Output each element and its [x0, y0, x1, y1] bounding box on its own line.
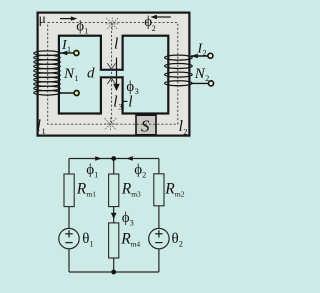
svg-text:m2: m2: [175, 189, 185, 198]
d dimension arrow upper (points down to gap): [107, 63, 115, 69]
wire bottom: [69, 271, 159, 273]
resistor Rm2: [154, 174, 164, 206]
d dimension arrow lower (points up to gap): [107, 78, 115, 84]
svg-text:R: R: [120, 231, 131, 248]
wire left branch upper: [68, 159, 70, 175]
svg-text:3: 3: [130, 218, 134, 227]
window 2 (right): [123, 36, 169, 114]
flux phi2 arrow: [150, 15, 170, 19]
flux phi1 arrow: [60, 16, 77, 20]
coil N1 on left limb: [34, 51, 60, 95]
svg-text:m1: m1: [86, 190, 96, 199]
svg-text:2: 2: [152, 24, 156, 33]
wire left branch lower: [68, 249, 70, 272]
mmf source theta2: [149, 228, 169, 248]
svg-text:2: 2: [183, 127, 187, 136]
dashed mean flux path: [48, 23, 178, 125]
svg-text:R: R: [164, 180, 175, 197]
svg-text:1: 1: [84, 27, 88, 36]
window 1 (left): [59, 36, 101, 114]
svg-text:2: 2: [205, 74, 209, 83]
svg-text:1: 1: [94, 171, 98, 180]
svg-text:1: 1: [75, 74, 79, 83]
flux phi3 arrow through gap: [113, 58, 120, 92]
svg-text:N: N: [194, 66, 206, 82]
node bottom: [111, 270, 116, 275]
wire mid branch upper: [113, 159, 115, 175]
svg-text:1: 1: [42, 127, 46, 136]
svg-text:2: 2: [142, 171, 146, 180]
svg-text:l: l: [179, 118, 183, 135]
svg-text:1: 1: [67, 45, 71, 54]
node top: [111, 156, 116, 161]
svg-text:m3: m3: [131, 190, 141, 199]
svg-text:l: l: [128, 93, 132, 110]
wire right branch lower: [158, 249, 160, 272]
wire left branch middle: [68, 207, 70, 229]
svg-text:l: l: [113, 93, 117, 110]
svg-text:θ: θ: [172, 231, 179, 247]
svg-text:ϕ: ϕ: [134, 162, 142, 178]
svg-text:S: S: [141, 117, 150, 136]
resistor Rm4: [109, 223, 119, 258]
current I1 arrow: [61, 51, 68, 56]
svg-text:R: R: [121, 181, 132, 198]
svg-text:N: N: [63, 66, 75, 82]
svg-text:θ: θ: [82, 231, 89, 247]
svg-text:R: R: [76, 181, 87, 198]
flux phi1 arrow (circuit): [95, 156, 102, 160]
mmf source theta1: [59, 228, 79, 248]
resistor Rm1: [64, 174, 74, 207]
svg-text:ϕ: ϕ: [86, 162, 94, 178]
flux phi3 arrow (circuit): [111, 213, 117, 219]
coil N1 bottom terminal: [58, 92, 74, 94]
star junction bottom: [104, 118, 117, 131]
svg-text:m4: m4: [131, 240, 141, 249]
wire right branch upper: [158, 159, 160, 174]
wire mid branch lower: [113, 258, 115, 272]
resistor Rm3: [109, 174, 119, 207]
svg-text:3: 3: [118, 102, 122, 111]
svg-text:μ: μ: [39, 11, 46, 26]
air gap in center limb: [100, 71, 125, 77]
svg-text:ϕ: ϕ: [122, 210, 130, 226]
magnetic core body: [38, 13, 190, 136]
coil N2 top terminal: [191, 55, 208, 57]
flux phi2 arrow (circuit): [126, 156, 133, 160]
svg-text:l: l: [37, 118, 41, 135]
svg-text:d: d: [87, 66, 95, 82]
svg-text:ϕ: ϕ: [76, 18, 84, 34]
svg-text:l: l: [114, 36, 118, 53]
coil N2 on right limb: [165, 55, 193, 86]
wire right branch middle: [158, 206, 160, 229]
current I2 arrow: [191, 54, 198, 59]
svg-text:3: 3: [135, 87, 139, 96]
star junction top: [106, 18, 119, 31]
wire mid branch between Rm3 and Rm4: [113, 207, 115, 223]
svg-text:2: 2: [179, 240, 183, 249]
S cross-section block: [136, 115, 156, 135]
dashed center-limb path: [111, 23, 113, 125]
svg-text:2: 2: [203, 49, 207, 58]
coil N1 top terminal: [58, 52, 74, 54]
svg-text:1: 1: [90, 240, 94, 249]
wire top: [69, 158, 159, 160]
coil N2 bottom terminal: [191, 82, 208, 84]
